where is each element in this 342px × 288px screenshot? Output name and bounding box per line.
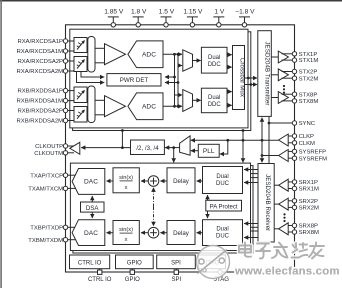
svg-text:PLL: PLL [203,148,215,155]
pin CLKOUTP [35,144,68,150]
svg-text:RXA/RXCDSA1P: RXA/RXCDSA1P [17,39,63,45]
svg-text:STX2M: STX2M [299,76,319,82]
Dual DDC A [201,47,227,73]
junction dots CLK wire [226,139,244,142]
pin SYSREFP [292,149,326,155]
pin JTAG [214,269,229,283]
ADC A [128,41,163,68]
svg-text:CTRL IO: CTRL IO [78,260,102,266]
junction dots clock distribution [121,129,244,149]
pin RXA/RXCDSA2P [17,59,74,65]
pin SRX2M [292,205,319,211]
pin RXB/RXDDSA1M [17,98,74,104]
wire PA protect to DUC A [207,195,209,200]
wire sinx B to DAC B [107,232,114,234]
crossover wire A to mux B [175,54,183,106]
clock mux [180,136,191,155]
wires crossbar to JESD TX [245,78,258,85]
TX section box [70,163,250,250]
wire PA protect to DUC B [207,211,209,218]
svg-text:RXB/RXDDSA1P: RXB/RXDDSA1P [17,89,63,95]
figure top border [0,0,342,2]
pin STX1M [292,58,318,64]
CTRL IO box [70,255,110,269]
Dual DDC B [201,88,227,113]
svg-text:RXB/RXDDSA1M: RXB/RXDDSA1M [17,99,64,105]
svg-text:CLKP: CLKP [299,134,314,140]
wire JESD clock vertical [261,118,263,163]
svg-text:SRX2P: SRX2P [299,199,318,205]
svg-text:GPIO: GPIO [125,277,140,283]
wire DAC clock vertical [242,131,244,163]
svg-text:STX2P: STX2P [299,70,318,76]
amplifier A [105,44,126,65]
svg-text:Delay: Delay [173,178,190,185]
wire ADC B out [163,105,182,107]
sin(x)/x box A [113,168,139,193]
svg-text:RXB/RXDDSA2P: RXB/RXDDSA2P [17,109,63,115]
supply pin 1.15V [183,9,203,27]
TX section box shadow [73,166,253,253]
svg-text:DDC: DDC [208,102,222,108]
wire divider out up to RX clock line [121,131,123,148]
pin CLKOUTM [34,151,68,157]
svg-text:JESD204B Transmitter: JESD204B Transmitter [263,42,270,106]
pin SPI [171,269,181,283]
pin TXAP/TXCP [30,173,76,179]
wire delay B to adder B [160,232,167,234]
svg-text:RXA/RXCDSA1M: RXA/RXCDSA1M [17,49,64,55]
combiner capsule A [88,37,95,73]
svg-text:x: x [125,185,128,191]
mux B [183,90,193,112]
pin SRX8P [292,223,318,229]
pin SRX1P [292,180,318,186]
dash-dot link between adders [153,188,155,226]
wire mux A to DDC A [193,60,201,62]
DAC B [72,220,105,246]
wire DSA to DAC B [91,212,93,218]
pin TXBP/TXDP [30,225,76,231]
pin RXA/RXCDSA1M [17,49,74,55]
svg-text:PWR DET: PWR DET [120,77,149,84]
svg-text:SRX1P: SRX1P [299,180,318,186]
divider box /2,/3,/4 [131,140,165,155]
svg-text:sin(x): sin(x) [119,227,133,233]
supply pin 1.5V [159,9,175,27]
svg-text:1.15 V: 1.15 V [183,9,203,16]
svg-text:–1.8 V: –1.8 V [235,9,255,16]
SRX buffer 1 [274,179,292,191]
SRX buffer 8 [274,223,292,235]
wires DDC B to crossbar [227,92,232,106]
junction dots RX crossover [173,53,179,108]
Delay box B [167,221,195,245]
supply pin -1.8V [235,9,255,27]
svg-text:Dual: Dual [208,95,220,101]
svg-text:SRX2M: SRX2M [299,206,319,212]
junction dots on crossbar-JESD wires [247,77,252,86]
svg-text:SRX8M: SRX8M [299,230,319,236]
pin TXBM/TXDM [28,238,76,244]
SPI box [157,255,196,269]
wire SYSREF to JESD vertical [262,155,279,157]
wire capsule B to amp B [95,100,105,115]
PWR DET right stubs [165,77,178,83]
svg-text:SYSREFM: SYSREFM [299,156,328,162]
pin TXAM/TXCM [28,186,76,192]
DSA attenuator box B1 [74,87,87,103]
svg-text:SPI: SPI [171,277,181,283]
svg-text:SYNC: SYNC [299,121,316,127]
pin SRX8M [292,230,319,236]
svg-text:GPIO: GPIO [127,260,142,266]
wire SYNC vertical [268,116,270,163]
supply pin 1V [213,9,225,27]
pin GPIO [125,269,140,283]
svg-text:1 V: 1 V [214,9,224,16]
wires JESD RX to DUC A [244,170,258,183]
pin SRX1M [292,186,319,192]
pin SYNC [292,121,315,127]
Delay box A [167,168,195,193]
SRX buffer 2 [274,198,292,210]
SRX ellipsis dots [283,213,285,222]
svg-text:1.8 V: 1.8 V [131,9,147,16]
pin STX2M [292,76,318,82]
crossover wire B to mux A [178,54,182,106]
wire delay A to adder A [160,180,167,182]
wires DDC A to crossbar [227,55,232,67]
svg-text:TXBP/TXDP: TXBP/TXDP [30,225,63,231]
pin CLKP [292,134,314,140]
wire ADC A out [163,53,182,55]
wire divider out to CLKOUT buffer [81,147,130,149]
figure left border [0,0,2,288]
RX section box shadow [73,32,251,131]
DSA box [81,202,105,212]
svg-text:CTRL IO: CTRL IO [88,277,112,283]
svg-text:STX8M: STX8M [299,99,319,105]
supply pin 1.8V [131,9,147,27]
svg-text:DDC: DDC [208,62,222,68]
svg-text:DAC: DAC [84,230,98,237]
svg-text:RXA/RXCDSA2P: RXA/RXCDSA2P [17,59,63,65]
Dual DUC B [203,220,243,246]
wire clock mux out [165,147,180,149]
PA Protect box [206,200,242,211]
SYSREF input buffer [279,150,293,162]
adder B [148,227,159,238]
JTAG box [199,255,226,269]
DSA attenuator box B2 [74,107,87,123]
svg-text:TXBM/TXDM: TXBM/TXDM [28,238,63,244]
svg-text:ADC: ADC [142,52,156,59]
pin SRX2P [292,199,318,205]
pin CLKM [292,141,315,147]
svg-text:ADC: ADC [142,104,156,111]
svg-text:/2, /3, /4: /2, /3, /4 [136,145,159,152]
svg-text:Dual: Dual [216,227,228,233]
svg-text:RXB/RXDDSA2M: RXB/RXDDSA2M [17,119,64,125]
wire capsule A to amp A [95,48,105,63]
PWR DET tap wires [77,72,105,83]
svg-text:SRX1M: SRX1M [299,187,319,193]
pin CTRL IO [88,269,112,283]
wire sinx A to DAC A [107,180,114,182]
svg-text:STX1M: STX1M [299,58,319,64]
CLK input buffer [279,134,293,146]
svg-text:DSA: DSA [86,205,100,212]
CLKOUT buffer [68,142,80,154]
svg-text:Dual: Dual [208,55,220,61]
pin STX1P [292,52,317,58]
svg-text:TXAM/TXCM: TXAM/TXCM [28,187,63,193]
pin RXA/RXCDSA2M [17,69,74,75]
wire CLK to PLL [220,140,228,154]
svg-text:Dual: Dual [216,174,228,180]
svg-text:sin(x): sin(x) [119,175,133,181]
DAC A [72,169,105,195]
adder A [148,176,159,187]
JESD204B Receiver box [258,164,274,243]
svg-text:SPI: SPI [171,260,181,266]
wire adder A to sinx A [141,180,148,182]
wire DUC B to delay B [197,232,203,234]
svg-text:1.85 V: 1.85 V [104,9,124,16]
JESD204B Transmitter box [258,31,272,117]
wire SYNC [269,122,292,124]
wire adder B to sinx B [141,232,148,234]
sin(x)/x box B [113,221,139,245]
wire DSA to DAC A [91,196,93,202]
mux A [183,50,193,71]
svg-text:TXAP/TXCP: TXAP/TXCP [30,173,63,179]
GPIO box [116,255,154,269]
wire clock to TX box (from mux out) [173,148,175,163]
pin RXB/RXDDSA2P [17,108,74,114]
svg-text:JESD204B Receiver: JESD204B Receiver [264,174,271,231]
wire CLK main [191,139,279,141]
svg-text:1.5 V: 1.5 V [159,9,175,16]
amplifier B [105,96,126,117]
wire DUC A to delay A [197,180,203,182]
svg-text:x: x [125,237,128,243]
pin STX2P [292,69,317,75]
Crossbar Mux box [233,46,246,110]
svg-text:STX1P: STX1P [299,52,318,58]
svg-text:SRX8P: SRX8P [299,224,318,230]
STX buffer 1 [271,51,292,63]
RX section box [70,29,248,128]
wires JESD RX to DUC B [244,224,258,238]
pin RXB/RXDDSA1P [17,88,74,94]
pin STX8P [292,92,317,98]
pin SYSREFM [292,156,327,162]
svg-text:SYSREFP: SYSREFP [299,150,327,156]
svg-text:DUC: DUC [216,233,230,239]
svg-text:DAC: DAC [84,179,98,186]
PWR DET box [107,74,161,86]
supply pin 1.85V [104,9,124,27]
svg-text:PA Protect: PA Protect [210,204,238,210]
ADC B [128,93,163,120]
svg-text:STX8P: STX8P [299,92,318,98]
pin STX8M [292,99,318,105]
STX buffer 2 [271,69,292,81]
DSA attenuator box A1 [74,38,87,53]
STX buffer 8 [271,92,292,104]
DSA attenuator box A2 [74,57,87,72]
combiner capsule B [88,86,95,123]
PLL box [198,144,219,157]
svg-text:Delay: Delay [173,230,190,237]
Dual DUC A [203,167,243,194]
junction dots JESD verticals [261,122,271,157]
svg-text:DUC: DUC [216,181,230,187]
svg-text:CLKOUTM: CLKOUTM [34,151,63,157]
STX ellipsis dots [283,85,285,94]
pin RXA/RXCDSA1P [17,39,74,45]
wire PLL to clock mux [191,150,199,152]
svg-text:CLKOUTP: CLKOUTP [35,144,63,150]
svg-text:www.elecfans.com: www.elecfans.com [234,266,340,278]
chip outer box [66,25,295,272]
watermark logo circle [197,246,230,279]
wire mux B to DDC B [193,99,201,101]
svg-text:CLKM: CLKM [299,141,315,147]
pin RXB/RXDDSA2M [17,118,74,124]
watermark chinese text [239,243,324,259]
svg-text:RXA/RXCDSA2M: RXA/RXCDSA2M [17,69,64,75]
